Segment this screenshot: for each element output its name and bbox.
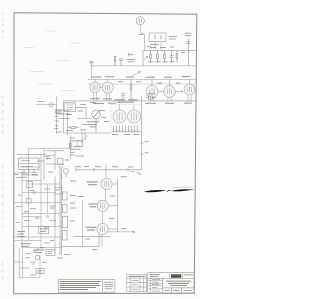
- switch box S1: [27, 181, 33, 187]
- wire bus y100.9: [64, 100, 197, 102]
- input jack circle J1: [64, 169, 69, 174]
- notes box frame: [58, 280, 115, 293]
- label V6: [87, 182, 99, 185]
- arrow comp mid: [133, 71, 141, 75]
- ladder capacitor C7: [63, 231, 68, 241]
- wire x82.7: [82, 200, 84, 246]
- wire bus y79.4: [88, 78, 196, 80]
- balloon 3: [136, 17, 144, 32]
- pot arrow near T1: [144, 57, 148, 61]
- tube V4: [164, 79, 176, 101]
- revision text: [152, 280, 160, 291]
- table frame: [127, 275, 147, 292]
- tick marks on vertical: [140, 143, 144, 154]
- terminal symbol: [129, 53, 134, 57]
- switch box S3: [55, 187, 62, 194]
- trimmer circle: [49, 103, 53, 107]
- capacitor C1: [170, 51, 174, 63]
- label mid: [127, 60, 135, 62]
- resistor R3: [164, 51, 166, 63]
- resistor R5: [130, 79, 132, 101]
- tail arrow: [33, 249, 39, 253]
- wire x117.6: [117, 179, 119, 232]
- P2 label: [48, 252, 54, 254]
- label rows below box: [15, 175, 39, 178]
- stub right of box: [44, 157, 50, 161]
- label cluster under box: [66, 129, 86, 132]
- wire double vertical: [60, 168, 61, 255]
- label near stack top: [121, 176, 128, 178]
- title bottom row: [163, 288, 194, 293]
- resistor R2: [157, 51, 159, 63]
- ladder capacitor C6: [63, 217, 68, 228]
- capacitor C3 top of bus: [90, 61, 94, 66]
- transformer T1: [149, 33, 166, 42]
- wire y236.3: [74, 235, 111, 237]
- pilot lamp circle: [35, 255, 39, 259]
- tube V3: [146, 79, 158, 101]
- coil taps: [54, 110, 70, 128]
- hatch pins under cans: [112, 126, 141, 132]
- tail labels: [25, 254, 47, 276]
- junction ticks on audio bus: [76, 168, 128, 171]
- label under T1: [139, 34, 159, 44]
- wire x70.2: [46, 136, 70, 158]
- value labels row: [149, 48, 175, 62]
- resistor R4: [176, 51, 178, 63]
- ladder resistor R8: [63, 192, 68, 200]
- wire y169.8 long: [76, 169, 142, 171]
- connector labels: [71, 138, 76, 155]
- revision table rows: [148, 278, 163, 293]
- wire bus y65.9: [91, 65, 197, 67]
- label block left dark: [18, 232, 26, 237]
- capacitor C2: [187, 39, 191, 66]
- tube V7: [97, 200, 108, 223]
- wire harness horizontals: [15, 167, 62, 248]
- label V7: [89, 204, 98, 207]
- label V8: [86, 227, 97, 230]
- logo block: [171, 274, 181, 278]
- power unit box T4: [19, 158, 39, 169]
- contact dot K2: [46, 215, 48, 217]
- notes text right: [104, 282, 113, 289]
- wire y231.9 with arrow: [108, 231, 135, 233]
- wire bus y84: [88, 83, 196, 85]
- ladder labels: [57, 196, 76, 259]
- notes text left: [60, 282, 101, 290]
- resistor R1: [150, 51, 152, 63]
- label left of lead: [37, 101, 44, 103]
- wire x63.5 and bottom y133: [64, 101, 112, 133]
- fuse box F1: [36, 269, 44, 274]
- wire stack links: [108, 184, 118, 229]
- black strike mark left: [144, 190, 167, 192]
- tube V6: [101, 164, 112, 201]
- wire x143: [142, 51, 144, 66]
- wire T1 left leg: [143, 34, 145, 51]
- comps below box: [21, 169, 38, 176]
- wire V4-V5 link with arrow: [175, 90, 183, 92]
- ground sym G1: [30, 262, 36, 266]
- wire box to pot: [75, 107, 92, 118]
- black strike mark right: [171, 189, 194, 191]
- title text: [166, 281, 192, 285]
- resistor R12: [114, 57, 116, 66]
- wire antenna vertical: [56, 96, 58, 134]
- antenna coil L1 blob: [55, 110, 62, 114]
- wire x99: [98, 230, 100, 247]
- wire T1 bottom stubs: [155, 42, 161, 51]
- label R7: [74, 147, 82, 150]
- IF can T2: [113, 105, 126, 124]
- ladder resistor R9: [63, 205, 68, 213]
- harness labels: [16, 156, 84, 243]
- label rows bottom: [21, 244, 45, 253]
- jack cluster: [59, 165, 67, 180]
- switch box S2: [27, 199, 32, 204]
- wire diag to center: [70, 135, 88, 141]
- black strike check: [167, 190, 170, 192]
- scattered value specks: [18, 47, 185, 250]
- label above cans: [115, 100, 138, 102]
- volume pot P1: [92, 110, 100, 133]
- comp right of cans: [146, 94, 156, 99]
- label C2: [185, 33, 192, 35]
- capacitor C4: [121, 94, 125, 101]
- fuse label: [38, 271, 43, 273]
- cluster right of box: [46, 151, 64, 170]
- pin labels under tubes: [90, 99, 192, 104]
- wire y148 cross: [29, 147, 71, 149]
- box B1: [64, 103, 75, 112]
- tube V8: [97, 223, 108, 246]
- table cell text: [132, 280, 139, 289]
- wire x44: [43, 148, 45, 180]
- wire y246.3: [61, 245, 99, 247]
- label right of T1: [169, 37, 178, 40]
- wire V1-V2 link: [100, 86, 102, 88]
- tube V1: [90, 79, 100, 101]
- label P1: [87, 122, 99, 127]
- wire tail verticals: [15, 248, 41, 278]
- note arrow small: [131, 171, 141, 174]
- wire antenna lead: [36, 104, 57, 106]
- bottom row text: [165, 289, 193, 291]
- table header text: [129, 275, 146, 277]
- resistor R7: [69, 143, 71, 148]
- resistor R6: [68, 127, 79, 129]
- header cell text: [149, 275, 193, 277]
- tube labels row: [92, 76, 190, 79]
- tube V5: [184, 79, 195, 101]
- connector stub cluster: [77, 132, 85, 147]
- IF can T3: [128, 105, 141, 124]
- switch box S4: [39, 227, 49, 234]
- wire x67.7 down: [67, 112, 69, 136]
- dashed can box: [111, 105, 142, 131]
- label below coil: [56, 131, 62, 133]
- title block frame: [148, 273, 194, 293]
- wire V3-V4 link: [158, 91, 164, 93]
- small box P2: [46, 250, 55, 256]
- wire balloon to T1: [140, 32, 144, 34]
- wire x91.5: [91, 66, 93, 80]
- contact dot K1: [33, 191, 35, 193]
- wire y154.3: [17, 153, 46, 155]
- tick labels: [145, 142, 149, 153]
- wire bus y50.7: [143, 50, 196, 52]
- wire x141.6 long vertical: [141, 96, 143, 170]
- pot area specks: [80, 103, 106, 125]
- tube V2: [102, 79, 113, 101]
- wire x28.5 upper: [28, 148, 30, 167]
- wire harness verticals: [22, 155, 55, 248]
- wire x55 vertical: [54, 179, 56, 253]
- capacitor C8: [119, 59, 123, 66]
- switch box S4 label: [40, 229, 47, 232]
